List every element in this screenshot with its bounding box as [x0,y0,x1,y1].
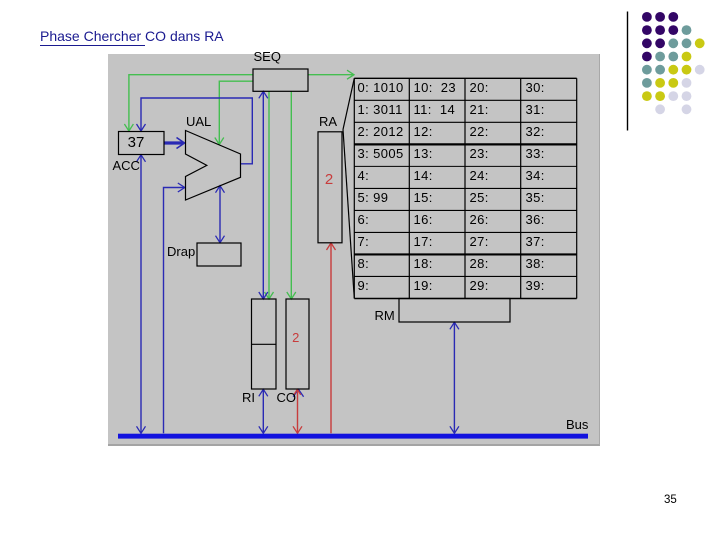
blue arrowhead at CO bottom [293,389,303,397]
label RA value 2 [317,171,341,188]
decorative vertical line top-right [627,12,629,131]
decorative dot grid [642,12,652,22]
label ACC [113,158,140,173]
wire blue UAL output feedback loop to ACC top [141,98,252,164]
gray diagram panel [108,54,600,446]
label RI [242,390,255,405]
label RM [375,308,395,323]
wire blue UAL bottom to Drap [219,186,221,243]
memory table RM grid [354,78,576,298]
wire blue RM bottom to bus [453,322,455,433]
register ACC box [119,132,165,155]
wire green SEQ-left to ACC top [129,75,253,131]
label RA [319,114,337,129]
register Drap box [197,243,241,266]
label UAL [186,114,211,129]
RA selector wedge lines [343,78,354,129]
label CO [277,390,297,405]
label Drap [167,244,195,259]
label ACC value 37 [119,134,154,151]
register RI box [252,299,277,389]
wire blue SEQ bottom to RI top [262,91,264,298]
wire green SEQ-left to UAL top input [219,81,253,144]
wire green SEQ-bottom to RI top [268,91,270,299]
wire green SEQ-bottom to CO top [290,91,292,299]
memory table cell texts [358,80,404,95]
wire thick blue ACC to UAL input [165,141,184,144]
title underline [40,45,145,46]
wire blue ACC bottom to bus [140,155,142,433]
Bus thick blue line [118,434,588,439]
label Bus [566,417,588,432]
wire green SEQ-right to memory table [308,74,354,76]
wire blue RI bottom to bus [262,389,264,433]
op-unit UAL polygon [186,131,241,201]
wire blue bus to UAL lower input [164,188,185,434]
slide title [40,28,224,44]
label page number 35 [664,494,677,506]
register RM box [399,299,510,323]
register CO box [286,299,309,389]
label SEQ [254,49,281,64]
wire red CO bottom to bus [297,389,299,433]
wire red bus to RA bottom [330,243,332,433]
register SEQ box [253,69,308,91]
label CO value 2 [284,330,308,345]
register RA box [318,132,342,243]
